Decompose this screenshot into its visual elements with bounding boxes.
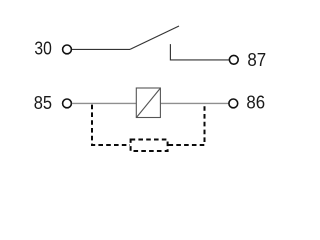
svg-text:85: 85 — [34, 93, 52, 113]
svg-text:87: 87 — [247, 50, 266, 70]
svg-text:86: 86 — [246, 93, 265, 113]
svg-text:30: 30 — [34, 39, 51, 59]
